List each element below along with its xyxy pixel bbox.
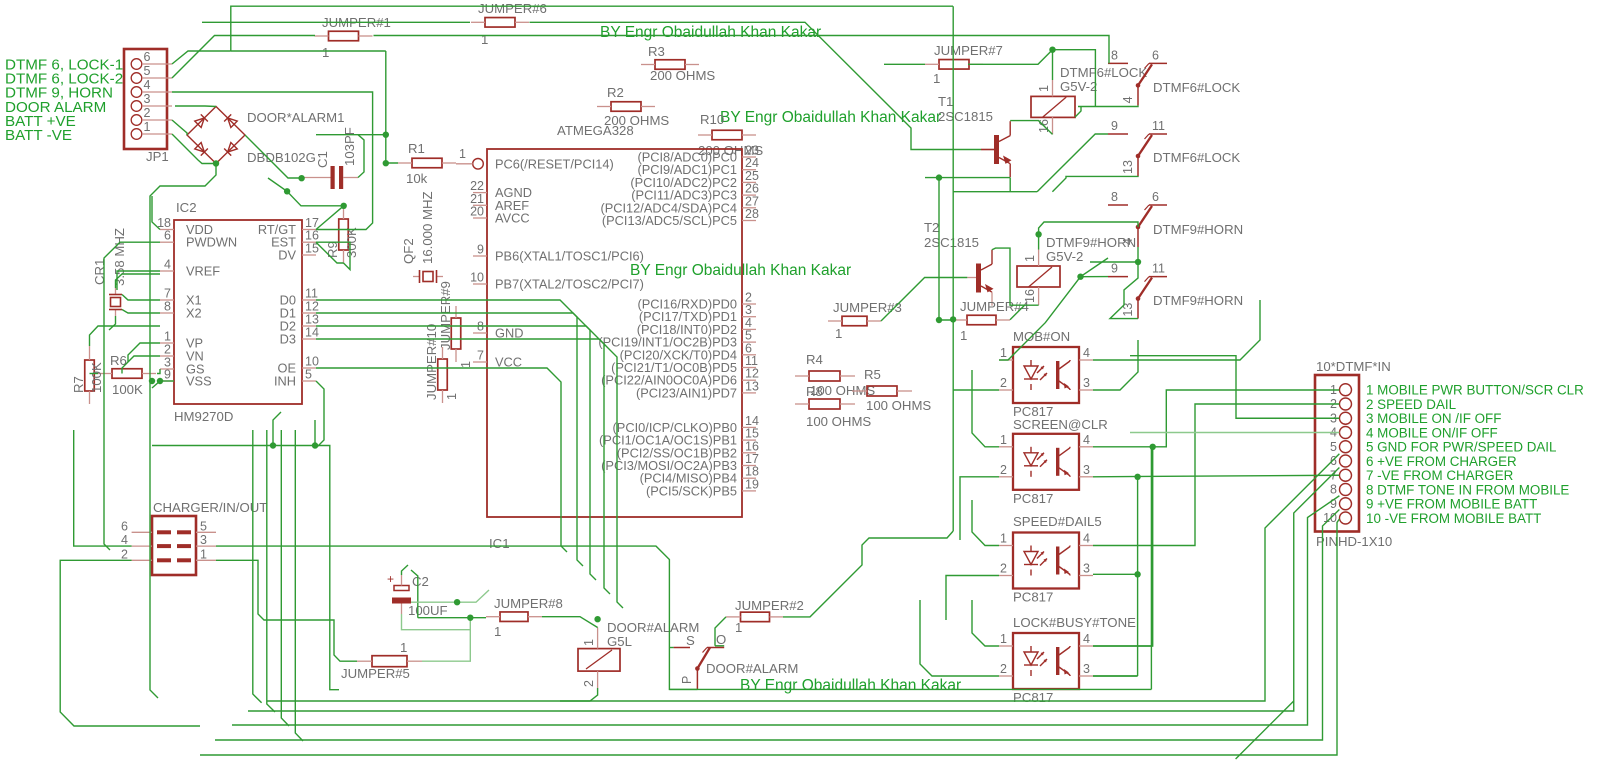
svg-text:8: 8: [1111, 48, 1118, 62]
svg-text:X2: X2: [186, 306, 202, 321]
svg-text:PC817: PC817: [1013, 690, 1053, 705]
svg-text:2 SPEED DAIL: 2 SPEED DAIL: [1366, 397, 1456, 412]
svg-text:11: 11: [305, 287, 318, 301]
resistor R8 100 OHMS: [809, 399, 840, 409]
svg-text:JUMPER#8: JUMPER#8: [494, 596, 563, 611]
svg-text:9: 9: [1111, 119, 1118, 133]
wire diag to S2 stem: [1052, 176, 1138, 192]
svg-text:D3: D3: [280, 332, 296, 347]
svg-text:3: 3: [200, 533, 207, 547]
switch S2 DTMF6#LOCK contact 2: [1108, 133, 1128, 135]
wire SCREEN pin4 rail: [1093, 390, 1339, 447]
svg-text:PB6(XTAL1/TOSC1/PCI6): PB6(XTAL1/TOSC1/PCI6): [495, 249, 644, 264]
svg-text:4: 4: [1083, 433, 1090, 447]
wire bundle riser 3: [281, 430, 289, 726]
svg-text:6: 6: [1152, 48, 1159, 62]
svg-text:BY Engr Obaidullah Khan Kakar: BY Engr Obaidullah Khan Kakar: [720, 109, 941, 126]
svg-text:4: 4: [1121, 96, 1135, 103]
svg-text:4: 4: [1121, 238, 1135, 245]
svg-text:1: 1: [1000, 632, 1007, 646]
svg-text:BY Engr Obaidullah Khan Kakar: BY Engr Obaidullah Khan Kakar: [600, 24, 821, 41]
jumper JUMPER#5: [372, 656, 407, 667]
wire R6 left: [90, 373, 99, 375]
wire R7 top: [90, 326, 161, 346]
wire T2 base from J3: [881, 278, 967, 322]
wire EST diag: [316, 242, 344, 263]
svg-text:3: 3: [1083, 376, 1090, 390]
wire J2 left to door switch O: [715, 617, 726, 646]
wire S4 zigzag to pin13: [1110, 262, 1138, 319]
svg-text:CHARGER/IN/OUT: CHARGER/IN/OUT: [153, 500, 267, 515]
wire JP1 pin5b rail h2: [171, 77, 173, 79]
svg-text:13: 13: [1121, 303, 1135, 317]
wire bottom diag stub: [1236, 701, 1294, 759]
svg-text:2: 2: [1000, 662, 1007, 676]
resistor R1 10k: [412, 158, 442, 168]
wire LOCK pin1: [972, 600, 999, 646]
resistor R9 300K: [339, 219, 349, 250]
svg-text:28: 28: [745, 207, 759, 221]
svg-text:O: O: [716, 632, 726, 647]
wire MOB pin4 rail right: [1093, 300, 1260, 360]
svg-text:+: +: [387, 572, 394, 586]
svg-text:1: 1: [1000, 433, 1007, 447]
wire relay K1 pin1 junction rail: [1052, 50, 1054, 80]
svg-text:T2: T2: [924, 220, 939, 235]
svg-text:R10: R10: [700, 112, 724, 127]
wire PWDWN to left rail: [104, 242, 160, 550]
wire LOCK pin2: [920, 600, 999, 676]
svg-text:JUMPER#7: JUMPER#7: [934, 43, 1003, 58]
svg-text:DTMF9#HORN: DTMF9#HORN: [1153, 293, 1243, 308]
connector SV1 PINHD-1X10 10*DTMF*IN: [1315, 375, 1359, 532]
resistor R4 100 OHMS: [809, 371, 840, 381]
resistor R3 200 OHMS: [655, 60, 685, 70]
svg-text:13: 13: [745, 379, 759, 393]
svg-text:C2: C2: [412, 574, 429, 589]
switch S3 DTMF9#HORN contact 1: [1108, 204, 1128, 206]
jumper JUMPER#3: [842, 316, 867, 326]
wire door switch S up: [669, 647, 673, 649]
svg-text:P: P: [680, 676, 694, 684]
connector JP1: [124, 49, 167, 149]
resistor R7 100K: [85, 360, 95, 391]
wire vertical x386 down to R1: [386, 51, 398, 163]
svg-text:2: 2: [582, 680, 596, 687]
svg-text:4 MOBILE ON/IF OFF: 4 MOBILE ON/IF OFF: [1366, 425, 1498, 440]
wire pin3 vertical link: [1137, 477, 1139, 676]
svg-text:VREF: VREF: [186, 264, 220, 279]
diode bridge DOOR*ALARM1 DBDB102G: [187, 107, 245, 164]
wire T2 collector loop to relay K2 pin16: [992, 248, 1039, 305]
svg-text:8: 8: [164, 300, 171, 314]
wire S4 pin9 rail: [1081, 276, 1109, 278]
wire vss rail drops: [273, 412, 281, 446]
svg-text:14: 14: [305, 326, 319, 340]
wire SCREEN pin4 down to LOCK pin4: [1151, 447, 1152, 646]
wire JP1 pin2 to bridge left: [172, 120, 187, 135]
switch S1 DTMF6#LOCK contact 1: [1108, 62, 1128, 64]
svg-text:R8: R8: [806, 384, 823, 399]
wire bridge bottom down-left loop: [150, 164, 216, 699]
wire X crossing under C1: [268, 178, 344, 206]
svg-text:SPEED#DAIL5: SPEED#DAIL5: [1013, 514, 1102, 529]
svg-text:PC817: PC817: [1013, 590, 1053, 605]
svg-text:2SC1815: 2SC1815: [938, 109, 993, 124]
svg-text:1: 1: [1037, 85, 1051, 92]
svg-text:6 +VE FROM CHARGER: 6 +VE FROM CHARGER: [1366, 454, 1517, 469]
wire D2: [316, 326, 610, 594]
svg-text:3 MOBILE ON /IF OFF: 3 MOBILE ON /IF OFF: [1366, 411, 1501, 426]
svg-text:4: 4: [164, 258, 171, 272]
wire diag to S2 pin9: [1037, 134, 1108, 192]
crystal CR1 3.58 MHZ: [115, 288, 117, 294]
wire relay K2 pin1 up: [1038, 234, 1040, 249]
svg-text:10: 10: [470, 271, 484, 285]
wire C2 plus rail: [411, 590, 489, 602]
wire VSS horizontal rail: [152, 446, 339, 690]
resistor R5 100 OHMS: [867, 386, 897, 396]
wire J2 right to V2: [783, 531, 953, 617]
resistor R2 200 OHMS: [611, 102, 641, 112]
crystal QF2 16.000 MHZ: [413, 276, 419, 278]
jumper JUMPER#10: [438, 359, 448, 390]
svg-text:G5L: G5L: [607, 634, 632, 649]
svg-text:3: 3: [1083, 463, 1090, 477]
svg-text:INH: INH: [274, 374, 296, 389]
svg-text:2: 2: [121, 547, 128, 561]
svg-text:4: 4: [121, 533, 128, 547]
wire J8 right to relay G5L pin1: [542, 617, 598, 628]
wire SPEED pin4 to header2: [1093, 404, 1339, 546]
svg-text:100K: 100K: [89, 362, 104, 393]
svg-text:(PCI23/AIN1)PD7: (PCI23/AIN1)PD7: [636, 385, 737, 400]
optocoupler OK2 SCREEN@CLR PC817: [1013, 434, 1079, 490]
svg-text:20: 20: [470, 205, 484, 219]
svg-text:PC817: PC817: [1013, 491, 1053, 506]
wire X1 X2 to CR1: [122, 295, 160, 301]
svg-text:8: 8: [1111, 190, 1118, 204]
svg-text:DTMF6#LOCK: DTMF6#LOCK: [1153, 150, 1240, 165]
svg-text:2: 2: [144, 106, 151, 120]
svg-text:13: 13: [1121, 160, 1135, 174]
wire R6 right to GS: [157, 369, 160, 374]
svg-text:1: 1: [445, 393, 459, 400]
svg-text:PB7(XTAL2/TOSC2/PCI7): PB7(XTAL2/TOSC2/PCI7): [495, 277, 644, 292]
svg-text:R9: R9: [325, 241, 340, 258]
svg-text:DOOR*ALARM1: DOOR*ALARM1: [247, 110, 344, 125]
svg-text:1: 1: [1000, 346, 1007, 360]
svg-text:100 OHMS: 100 OHMS: [806, 414, 871, 429]
svg-text:DOOR#ALARM: DOOR#ALARM: [706, 661, 798, 676]
wire G5L pin2 loop: [560, 688, 598, 701]
IC U2 HM9270D box: [174, 220, 302, 404]
svg-text:1: 1: [164, 330, 171, 344]
svg-text:1: 1: [481, 32, 488, 47]
svg-text:LOCK#BUSY#TONE: LOCK#BUSY#TONE: [1013, 615, 1136, 630]
svg-text:100 OHMS: 100 OHMS: [866, 398, 931, 413]
svg-text:DTMF9#HORN: DTMF9#HORN: [1153, 222, 1243, 237]
svg-text:1: 1: [400, 640, 407, 655]
svg-text:11: 11: [1152, 119, 1165, 133]
svg-text:R1: R1: [408, 141, 425, 156]
svg-text:(PCI13/ADC5/SCL)PC5: (PCI13/ADC5/SCL)PC5: [602, 213, 737, 228]
svg-text:9 +VE FROM MOBILE BATT: 9 +VE FROM MOBILE BATT: [1366, 497, 1537, 512]
wire SCREEN pin1: [972, 370, 999, 447]
wire header pin8 diag: [232, 496, 1339, 725]
svg-text:100UF: 100UF: [408, 603, 448, 618]
svg-text:1: 1: [459, 147, 466, 161]
IC2 right pins: [302, 229, 316, 231]
wire T1 collector to relay pin16: [1010, 121, 1052, 135]
junction J8 left: [467, 615, 473, 621]
optocoupler OK4 LOCK#BUSY#TONE PC817: [1013, 633, 1079, 689]
wire V2 x953 top: [952, 6, 954, 531]
svg-text:JUMPER#2: JUMPER#2: [735, 598, 804, 613]
wire INH down: [316, 381, 324, 448]
wire R9 bottom to EST: [316, 242, 350, 269]
wire header pin10 diag: [200, 519, 1339, 755]
svg-text:R3: R3: [648, 44, 665, 59]
svg-text:6: 6: [121, 519, 128, 533]
wire SPEED pin1: [972, 500, 999, 546]
jumper JUMPER#8: [500, 612, 528, 622]
svg-text:200 OHMS: 200 OHMS: [650, 68, 715, 83]
wire VSS down rail: [152, 381, 160, 388]
svg-text:10k: 10k: [406, 171, 428, 186]
svg-text:PWDWN: PWDWN: [186, 235, 237, 250]
svg-text:2: 2: [1000, 463, 1007, 477]
optocoupler OK3 SPEED#DAIL5 PC817: [1013, 533, 1079, 589]
wire JP1 pin4 long rail: [172, 92, 373, 230]
svg-text:QF2: QF2: [401, 238, 416, 264]
jumper JUMPER#2: [741, 612, 770, 622]
wire D0: [316, 300, 583, 566]
svg-text:JUMPER#6: JUMPER#6: [478, 1, 547, 16]
junction bridge bottom: [213, 160, 219, 166]
wire charger pin4 left loop: [74, 430, 132, 546]
wire OE: [316, 368, 567, 552]
svg-text:R2: R2: [607, 85, 624, 100]
transistor T2 2SC1815: [976, 264, 981, 293]
junction C1 left: [298, 175, 304, 181]
IC1 pin 1 PC6: [473, 159, 484, 170]
IC1 right pins PD0-PD7: [742, 303, 756, 305]
wire RT/GT17 to C1 area: [316, 206, 344, 230]
svg-text:PINHD-1X10: PINHD-1X10: [1316, 534, 1392, 549]
svg-text:BATT -VE: BATT -VE: [5, 127, 72, 144]
svg-text:4: 4: [1083, 532, 1090, 546]
svg-text:C1: C1: [315, 151, 330, 168]
svg-text:5 GND FOR PWR/SPEED DAIL: 5 GND FOR PWR/SPEED DAIL: [1366, 440, 1556, 455]
svg-text:R4: R4: [806, 352, 823, 367]
svg-text:8: 8: [1330, 483, 1337, 497]
wire VP VN GS: [128, 343, 160, 362]
IC1 right pins PC0-PC5: [742, 156, 756, 158]
svg-text:PC6(/RESET/PCI14): PC6(/RESET/PCI14): [495, 156, 614, 171]
svg-text:2: 2: [1000, 562, 1007, 576]
svg-text:4: 4: [144, 78, 151, 92]
wire JP1 pin6 to top rail: [172, 51, 231, 64]
wire JP1 pin5 rail: [172, 36, 315, 79]
svg-text:8 DTMF TONE IN FROM MOBILE: 8 DTMF TONE IN FROM MOBILE: [1366, 482, 1569, 497]
svg-text:JUMPER#10: JUMPER#10: [424, 324, 439, 400]
svg-text:1: 1: [960, 328, 967, 343]
wire SPEED pin2: [946, 576, 999, 621]
svg-text:BY Engr Obaidullah Khan Kakar: BY Engr Obaidullah Khan Kakar: [740, 677, 961, 694]
svg-text:1: 1: [459, 361, 473, 368]
wire header pin5 diag: [267, 454, 1339, 701]
wire big diagonal to MOB pin1: [999, 258, 1108, 360]
svg-text:JUMPER#3: JUMPER#3: [833, 300, 902, 315]
IC1 left pins: [473, 192, 487, 194]
svg-text:100K: 100K: [112, 382, 143, 397]
svg-text:1: 1: [200, 547, 207, 561]
svg-text:VCC: VCC: [495, 355, 522, 370]
wire MOB pin3: [1093, 340, 1138, 390]
svg-text:1: 1: [835, 326, 842, 341]
optocoupler OK1 MOB#ON PC817: [1013, 347, 1079, 403]
svg-text:SCREEN@CLR: SCREEN@CLR: [1013, 417, 1108, 432]
wire D1: [316, 313, 596, 580]
svg-text:13: 13: [305, 313, 319, 327]
svg-text:1: 1: [322, 45, 329, 60]
svg-text:4: 4: [1083, 632, 1090, 646]
resistor R10 200 OHMS: [712, 130, 742, 140]
wire S1 stem rail: [1078, 105, 1138, 106]
wire SCREEN pin2: [960, 477, 999, 540]
svg-text:1: 1: [735, 620, 742, 635]
svg-text:G5V-2: G5V-2: [1060, 79, 1097, 94]
svg-text:2SC1815: 2SC1815: [924, 235, 979, 250]
svg-text:G5V-2: G5V-2: [1046, 249, 1083, 264]
IC U1 ATMEGA328 box: [487, 149, 742, 517]
svg-text:3: 3: [144, 92, 151, 106]
svg-text:5: 5: [200, 519, 207, 533]
svg-text:DTMF6#LOCK: DTMF6#LOCK: [1153, 80, 1240, 95]
svg-text:9: 9: [1111, 262, 1118, 276]
svg-text:T1: T1: [938, 94, 953, 109]
wire bundle riser 1: [253, 430, 262, 703]
wire R9 top to crossing: [341, 203, 347, 209]
wire LOCK pin3 rail: [1093, 675, 1138, 677]
svg-text:11: 11: [1152, 262, 1165, 276]
wire C2 top to J8 rail: [402, 565, 409, 575]
wire D3: [316, 339, 623, 608]
svg-text:1: 1: [144, 120, 151, 134]
svg-text:7: 7: [164, 287, 171, 301]
svg-text:3: 3: [1083, 562, 1090, 576]
svg-text:6: 6: [144, 50, 151, 64]
svg-text:S: S: [686, 633, 695, 648]
jumper JUMPER#6: [485, 18, 515, 28]
wire emitter to y191: [1009, 178, 1011, 192]
svg-text:R5: R5: [864, 367, 881, 382]
wire C2 bottom to J5 right: [402, 614, 471, 630]
relay K3 DOOR#ALARM G5L coil: [578, 649, 620, 672]
svg-text:ATMEGA328: ATMEGA328: [557, 123, 634, 138]
svg-text:6: 6: [1152, 190, 1159, 204]
svg-text:GND: GND: [495, 326, 523, 341]
svg-text:1: 1: [494, 624, 501, 639]
connector CHARGER/IN/OUT: [152, 516, 196, 575]
svg-text:12: 12: [305, 300, 319, 314]
svg-text:DBDB102G: DBDB102G: [247, 150, 316, 165]
svg-text:10 -VE FROM MOBILE BATT: 10 -VE FROM MOBILE BATT: [1366, 511, 1541, 526]
wire S3 junction rail left: [1090, 261, 1138, 263]
jumper JUMPER#7: [939, 60, 969, 70]
wire SCREEN pin3 rail to header7: [1093, 475, 1339, 477]
svg-text:7: 7: [477, 349, 484, 363]
svg-text:9: 9: [477, 243, 484, 257]
wire JP1 pin3 to bridge top: [175, 105, 216, 108]
wire bundle riser 2: [267, 430, 275, 712]
wire V1 x939 down: [939, 178, 954, 320]
switch S4 DTMF9#HORN contact 2: [1108, 276, 1128, 278]
svg-text:IC2: IC2: [176, 200, 197, 215]
wire JP1 pin1 to bridge bottom: [172, 134, 216, 164]
svg-text:2: 2: [164, 343, 171, 357]
relay K1 DTMF6#LOCK G5V-2 coil: [1031, 96, 1075, 117]
wire h2 y22 to jumper6: [202, 21, 470, 23]
svg-text:3: 3: [1083, 662, 1090, 676]
IC1 right pins PB0-PB5: [742, 426, 756, 428]
svg-text:1: 1: [582, 639, 596, 646]
wire J4 right diag: [1010, 305, 1025, 320]
wire J8 left rail: [418, 617, 486, 619]
wire charger pin1 right: [216, 560, 357, 661]
transistor T1 2SC1815: [994, 135, 999, 164]
wire VDD18 up loop: [152, 196, 160, 230]
wire MOB pin2 rail: [953, 389, 999, 391]
svg-text:JP1: JP1: [146, 149, 169, 164]
wire S3 stem junction: [1137, 247, 1139, 262]
svg-text:BY Engr Obaidullah Khan Kakar: BY Engr Obaidullah Khan Kakar: [630, 262, 851, 279]
svg-text:6: 6: [164, 229, 171, 243]
svg-text:HM9270D: HM9270D: [174, 409, 233, 424]
svg-text:3.58 MHZ: 3.58 MHZ: [112, 228, 127, 286]
wire y191 rail: [953, 191, 1037, 193]
svg-text:MOB#ON: MOB#ON: [1013, 329, 1070, 344]
wire header pin4 light: [1130, 432, 1339, 434]
wire VSS row to bottom: [160, 380, 174, 382]
jumper JUMPER#9: [451, 318, 461, 349]
svg-text:R7: R7: [71, 376, 86, 393]
wire CR1 connections: [116, 274, 161, 288]
jumper JUMPER#4: [967, 315, 996, 325]
svg-text:IC1: IC1: [489, 536, 510, 551]
svg-text:DTMF6#LOCK: DTMF6#LOCK: [1060, 65, 1147, 80]
svg-text:VSS: VSS: [186, 374, 212, 389]
wire emitter rail: [925, 177, 1010, 179]
svg-text:1 MOBILE PWR BUTTON/SCR CLR: 1 MOBILE PWR BUTTON/SCR CLR: [1366, 383, 1584, 398]
wire bundle riser 4: [295, 430, 303, 741]
svg-text:1: 1: [933, 71, 940, 86]
svg-text:DV: DV: [278, 248, 296, 263]
wire charger pin3 right long: [216, 546, 697, 689]
svg-text:2: 2: [1000, 376, 1007, 390]
wire bridge right to C1: [245, 135, 302, 178]
wire header pin3 from left: [1130, 356, 1339, 419]
capacitor C1 103PF: [331, 166, 335, 189]
svg-text:1: 1: [1000, 532, 1007, 546]
wire J7 left: [884, 63, 925, 65]
wire jumper1 to switch S1 pin8: [374, 36, 1110, 64]
svg-text:5: 5: [144, 64, 151, 78]
svg-text:AVCC: AVCC: [495, 211, 530, 226]
wire charger pin2 left down: [60, 560, 200, 726]
svg-text:9: 9: [164, 368, 171, 382]
